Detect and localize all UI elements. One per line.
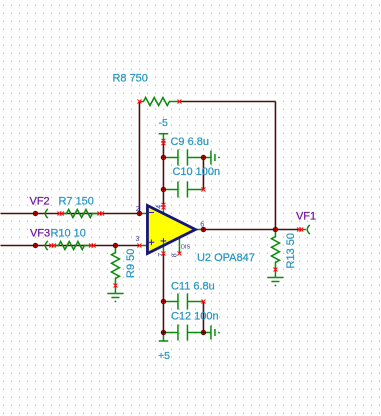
svg-text:C10 100n: C10 100n [172,166,220,178]
svg-text:VF1: VF1 [296,211,316,223]
svg-text:R9 50: R9 50 [125,249,137,278]
svg-text:-5: -5 [158,117,167,129]
svg-text:7: 7 [158,253,165,257]
svg-text:+5: +5 [158,350,170,362]
svg-text:VF2: VF2 [29,196,49,208]
svg-text:R13 50: R13 50 [285,233,297,268]
svg-text:C9 6.8u: C9 6.8u [170,136,209,148]
svg-text:U2 OPA847: U2 OPA847 [197,252,255,264]
svg-text:R8 750: R8 750 [112,73,147,85]
svg-text:R7 150: R7 150 [58,196,93,208]
svg-text:2: 2 [136,206,140,213]
svg-text:VF3: VF3 [30,228,50,240]
svg-text:6: 6 [200,222,204,229]
svg-text:4: 4 [156,205,163,209]
svg-text:DIS: DIS [181,245,191,251]
svg-text:C12 100n: C12 100n [171,311,219,323]
svg-text:R10 10: R10 10 [50,228,85,240]
svg-text:C11 6.8u: C11 6.8u [171,281,215,293]
svg-text:3: 3 [135,236,139,243]
svg-text:8: 8 [171,253,178,257]
